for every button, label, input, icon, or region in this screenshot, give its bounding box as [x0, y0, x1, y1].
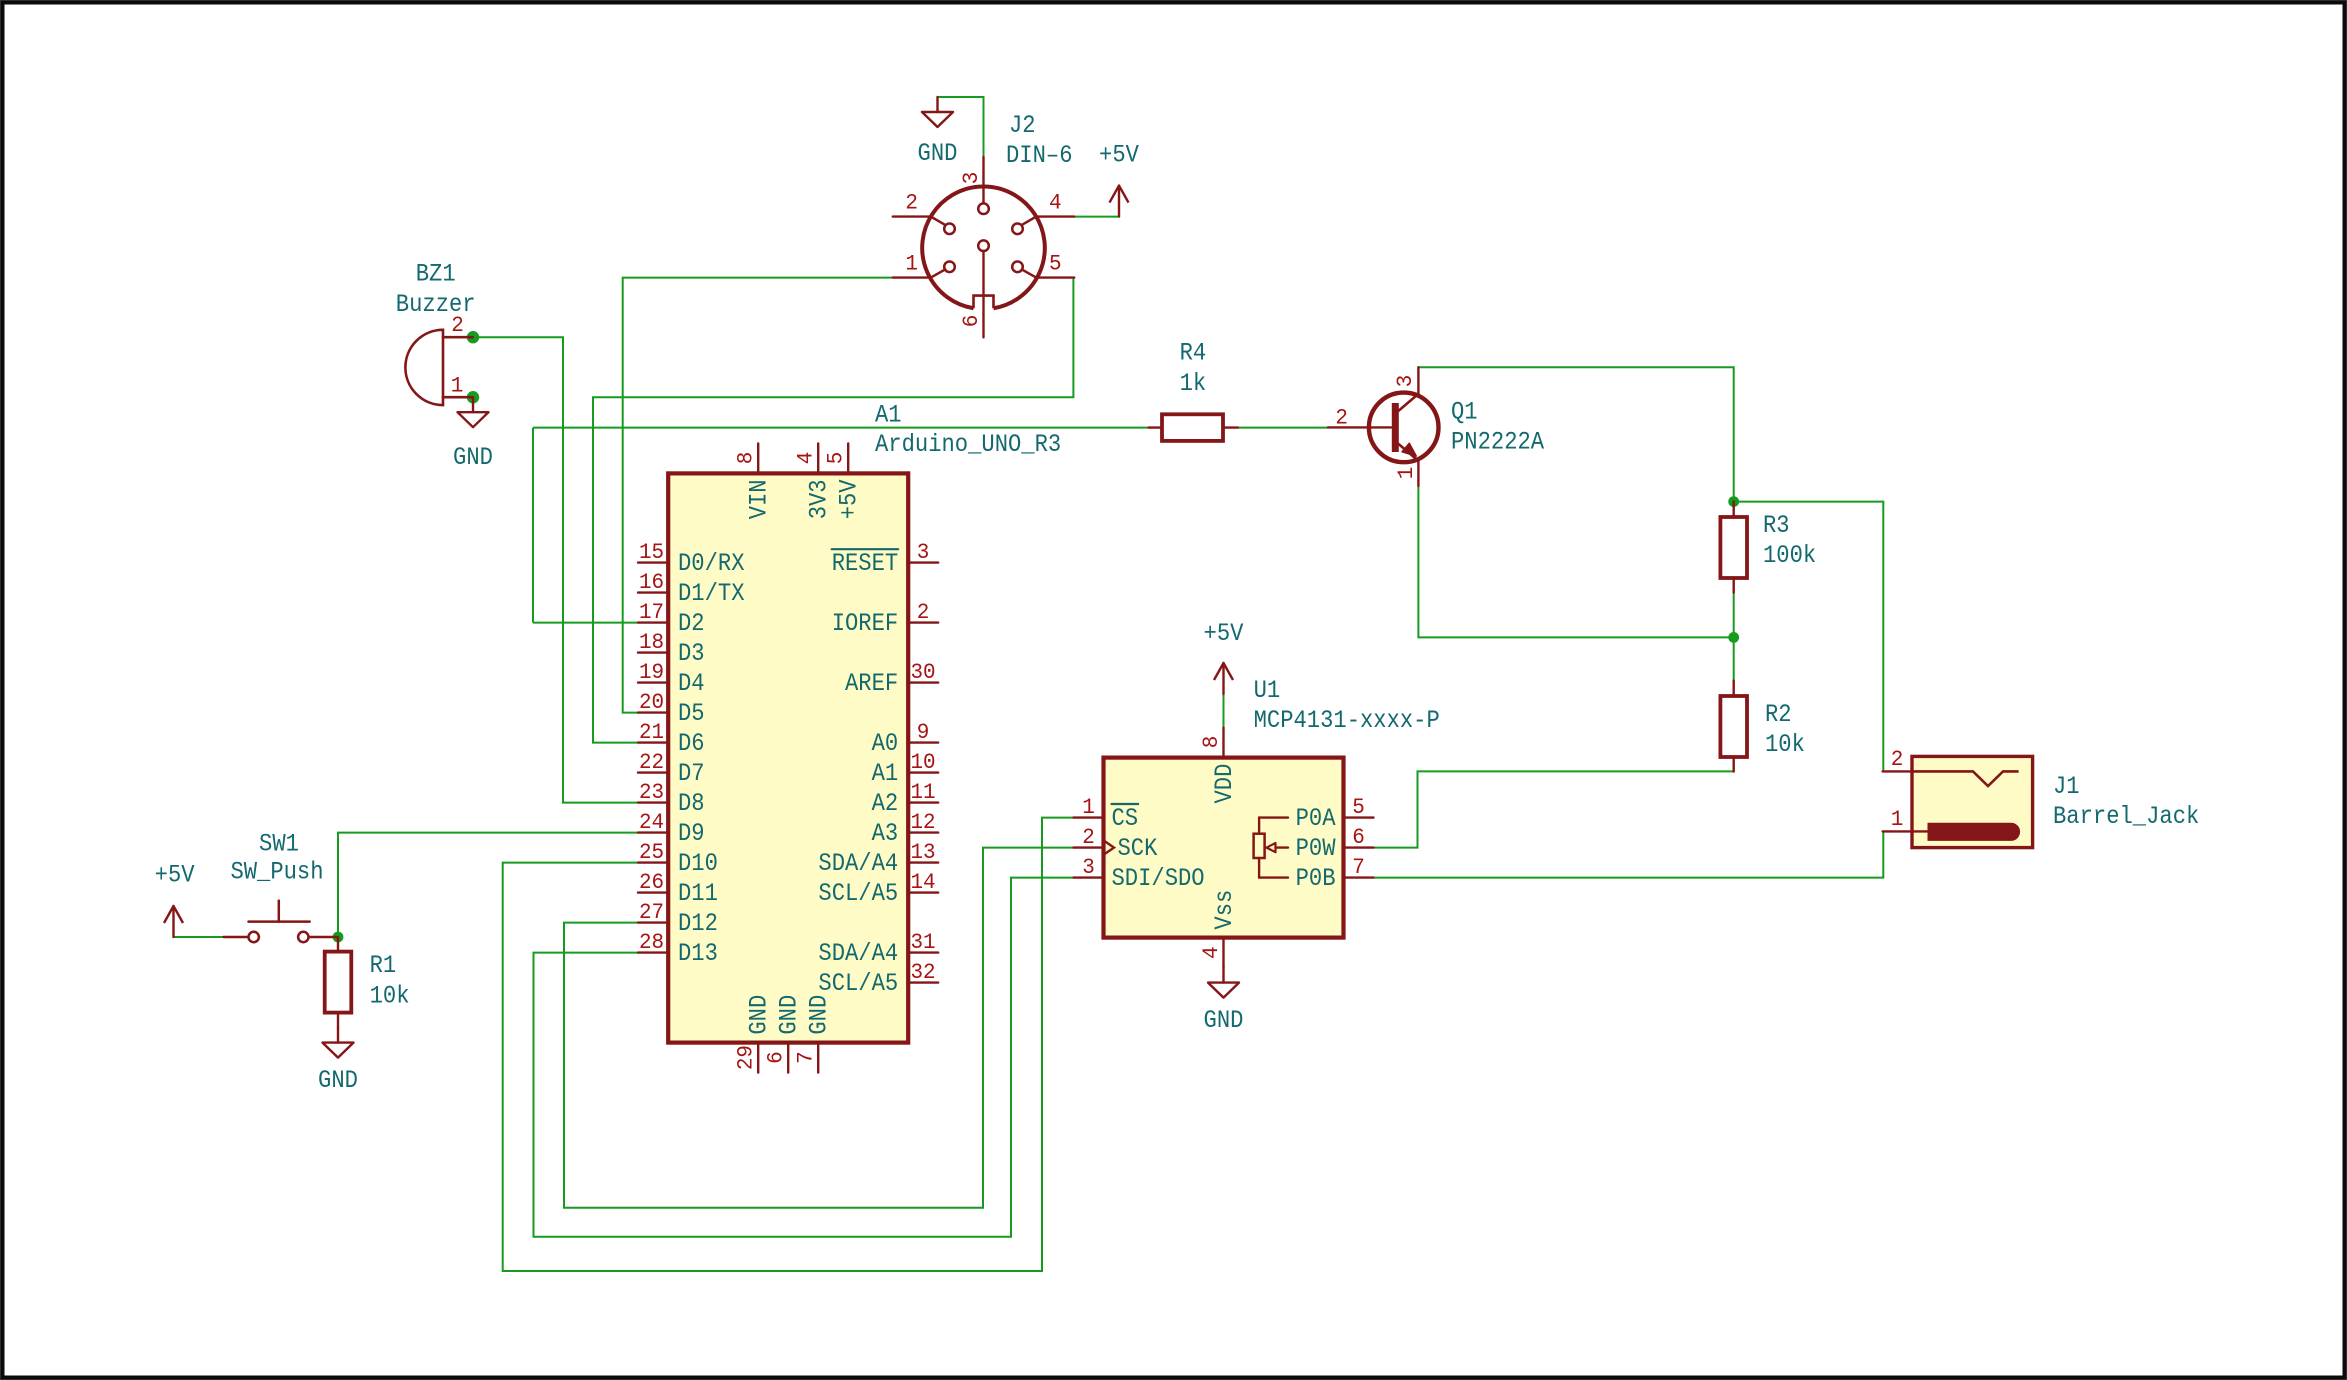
svg-text:Barrel_Jack: Barrel_Jack [2053, 802, 2199, 831]
svg-text:1: 1 [1891, 806, 1904, 832]
svg-text:D12: D12 [678, 909, 718, 938]
svg-text:3V3: 3V3 [805, 479, 834, 519]
svg-text:SW1: SW1 [259, 829, 299, 858]
svg-text:A2: A2 [872, 789, 899, 818]
svg-text:CS: CS [1112, 804, 1139, 833]
svg-text:SCL/A5: SCL/A5 [818, 879, 898, 908]
svg-text:+5V: +5V [155, 861, 195, 890]
svg-text:1: 1 [1082, 794, 1095, 820]
svg-text:5: 5 [823, 452, 849, 465]
svg-text:SDA/A4: SDA/A4 [818, 939, 898, 968]
svg-text:VIN: VIN [745, 479, 774, 519]
svg-text:100k: 100k [1763, 541, 1816, 570]
svg-text:17: 17 [639, 599, 664, 625]
svg-text:3: 3 [917, 539, 930, 565]
svg-text:10k: 10k [370, 982, 410, 1011]
svg-text:SCK: SCK [1118, 834, 1158, 863]
svg-text:D5: D5 [678, 699, 705, 728]
svg-text:+5V: +5V [1099, 141, 1139, 170]
svg-text:9: 9 [917, 719, 930, 745]
svg-text:10k: 10k [1765, 730, 1805, 759]
svg-text:25: 25 [639, 839, 664, 865]
svg-text:VDD: VDD [1210, 764, 1239, 804]
svg-text:D10: D10 [678, 849, 718, 878]
svg-text:D11: D11 [678, 879, 718, 908]
svg-text:SCL/A5: SCL/A5 [818, 969, 898, 998]
svg-text:RESET: RESET [832, 549, 899, 578]
svg-text:6: 6 [958, 315, 984, 328]
svg-text:6: 6 [763, 1051, 789, 1064]
svg-text:14: 14 [910, 869, 935, 895]
svg-text:3: 3 [1392, 375, 1418, 388]
svg-text:D6: D6 [678, 729, 705, 758]
svg-text:D9: D9 [678, 819, 705, 848]
svg-text:4: 4 [1198, 946, 1224, 959]
svg-text:PN2222A: PN2222A [1451, 428, 1544, 457]
svg-text:GND: GND [453, 443, 493, 472]
svg-text:16: 16 [639, 569, 664, 595]
svg-text:8: 8 [733, 452, 759, 465]
svg-text:P0A: P0A [1296, 804, 1336, 833]
svg-text:+5V: +5V [1204, 619, 1244, 648]
svg-text:28: 28 [639, 929, 664, 955]
svg-text:Buzzer: Buzzer [396, 290, 476, 319]
svg-text:20: 20 [639, 689, 664, 715]
svg-text:5: 5 [1049, 251, 1062, 277]
svg-text:24: 24 [639, 809, 664, 835]
svg-text:SDA/A4: SDA/A4 [818, 849, 898, 878]
svg-text:SW_Push: SW_Push [230, 857, 323, 886]
svg-text:P0B: P0B [1296, 864, 1336, 893]
svg-text:2: 2 [1891, 746, 1904, 772]
svg-text:22: 22 [639, 749, 664, 775]
svg-text:11: 11 [910, 779, 935, 805]
svg-text:4: 4 [1049, 190, 1062, 216]
svg-text:D8: D8 [678, 789, 705, 818]
svg-text:D0/RX: D0/RX [678, 549, 745, 578]
svg-text:GND: GND [805, 995, 834, 1035]
svg-text:1: 1 [1393, 467, 1419, 480]
svg-text:27: 27 [639, 899, 664, 925]
svg-text:10: 10 [910, 749, 935, 775]
svg-text:GND: GND [1204, 1006, 1244, 1035]
svg-text:BZ1: BZ1 [416, 259, 456, 288]
svg-text:DIN–6: DIN–6 [1006, 141, 1073, 170]
svg-text:5: 5 [1352, 794, 1365, 820]
svg-text:7: 7 [793, 1051, 819, 1064]
svg-text:2: 2 [1335, 404, 1348, 430]
svg-text:D3: D3 [678, 639, 705, 668]
svg-text:26: 26 [639, 869, 664, 895]
svg-text:3: 3 [958, 172, 984, 185]
svg-text:D7: D7 [678, 759, 705, 788]
svg-text:3: 3 [1082, 854, 1095, 880]
svg-text:13: 13 [910, 839, 935, 865]
svg-text:R3: R3 [1763, 511, 1790, 540]
svg-text:J1: J1 [2053, 772, 2080, 801]
svg-text:A1: A1 [872, 759, 899, 788]
svg-text:1: 1 [451, 373, 464, 399]
svg-text:15: 15 [639, 539, 664, 565]
svg-text:21: 21 [639, 719, 664, 745]
svg-text:D4: D4 [678, 669, 705, 698]
svg-text:D1/TX: D1/TX [678, 579, 745, 608]
svg-text:Arduino_UNO_R3: Arduino_UNO_R3 [875, 430, 1061, 459]
svg-text:D13: D13 [678, 939, 718, 968]
svg-text:18: 18 [639, 629, 664, 655]
svg-text:6: 6 [1352, 824, 1365, 850]
svg-text:A0: A0 [872, 729, 899, 758]
svg-text:D2: D2 [678, 609, 705, 638]
svg-text:29: 29 [733, 1045, 759, 1070]
svg-text:SDI/SDO: SDI/SDO [1112, 864, 1205, 893]
svg-text:Q1: Q1 [1451, 398, 1478, 427]
svg-text:A1: A1 [875, 400, 902, 429]
svg-text:R4: R4 [1180, 339, 1207, 368]
svg-text:19: 19 [639, 659, 664, 685]
svg-text:R2: R2 [1765, 700, 1792, 729]
svg-text:30: 30 [910, 659, 935, 685]
svg-text:2: 2 [1082, 824, 1095, 850]
svg-text:R1: R1 [370, 951, 397, 980]
svg-text:+5V: +5V [835, 479, 864, 519]
svg-text:MCP4131-xxxx-P: MCP4131-xxxx-P [1254, 706, 1440, 735]
svg-text:12: 12 [910, 809, 935, 835]
svg-text:GND: GND [318, 1066, 358, 1095]
svg-text:1: 1 [905, 251, 918, 277]
svg-text:IOREF: IOREF [832, 609, 899, 638]
svg-text:31: 31 [910, 929, 935, 955]
svg-text:Vss: Vss [1210, 890, 1239, 930]
svg-text:2: 2 [905, 190, 918, 216]
svg-text:J2: J2 [1009, 111, 1036, 140]
svg-text:8: 8 [1198, 736, 1224, 749]
svg-text:U1: U1 [1254, 676, 1281, 705]
svg-text:7: 7 [1352, 854, 1365, 880]
svg-text:GND: GND [918, 139, 958, 168]
svg-text:1k: 1k [1180, 369, 1207, 398]
svg-text:GND: GND [775, 995, 804, 1035]
svg-text:AREF: AREF [845, 669, 898, 698]
svg-text:2: 2 [917, 599, 930, 625]
svg-text:23: 23 [639, 779, 664, 805]
svg-text:32: 32 [910, 959, 935, 985]
svg-text:P0W: P0W [1296, 834, 1336, 863]
svg-text:4: 4 [793, 452, 819, 465]
svg-text:A3: A3 [872, 819, 899, 848]
svg-text:GND: GND [745, 995, 774, 1035]
